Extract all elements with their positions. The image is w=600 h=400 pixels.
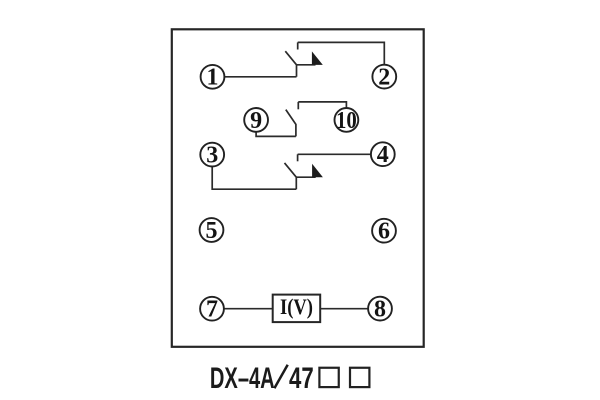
svg-text:I(V): I(V) xyxy=(280,294,313,319)
wire coil to terminal8 xyxy=(321,308,369,310)
wire terminal3 to contact K3 xyxy=(212,166,296,189)
svg-text:8: 8 xyxy=(374,297,386,323)
wire terminal7 to coil xyxy=(224,308,273,310)
terminal 2 xyxy=(372,65,396,91)
svg-text:DX–4A: DX–4A xyxy=(210,362,275,395)
svg-text:3: 3 xyxy=(206,143,218,169)
relay case outline xyxy=(172,29,424,347)
model label slash xyxy=(274,365,287,389)
svg-text:6: 6 xyxy=(378,219,390,245)
terminal 5 xyxy=(200,218,224,244)
contact K3 arrowhead xyxy=(312,164,323,178)
terminal 9 xyxy=(244,108,268,134)
coil box I(V) xyxy=(273,295,321,323)
wire contact K3 to terminal4 xyxy=(298,153,372,155)
wire terminal9 to contact K2 xyxy=(256,131,296,136)
wire contact K1 to terminal2 xyxy=(298,42,385,65)
contact K2 fixed contact xyxy=(297,102,299,109)
svg-text:5: 5 xyxy=(206,218,218,244)
wire terminal1 to contact K1 xyxy=(224,76,296,78)
svg-text:1: 1 xyxy=(207,65,219,91)
terminal 6 xyxy=(372,219,396,245)
terminal 3 xyxy=(200,143,224,169)
terminal 7 xyxy=(200,297,224,323)
terminal 8 xyxy=(368,297,392,323)
contact K1 movable blade xyxy=(285,51,296,77)
model option square 2 xyxy=(350,368,369,387)
terminal 10 xyxy=(335,108,359,134)
model option square 1 xyxy=(319,368,338,387)
contact K3 fixed contact xyxy=(297,154,299,161)
svg-text:9: 9 xyxy=(250,108,262,134)
svg-text:7: 7 xyxy=(206,297,218,323)
svg-text:2: 2 xyxy=(378,65,390,91)
terminal 1 xyxy=(201,65,225,91)
contact K3 movable blade xyxy=(285,163,297,189)
contact K1 fixed contact xyxy=(297,42,299,49)
contact K1 arrowhead xyxy=(312,51,323,65)
terminal 4 xyxy=(371,142,395,168)
wire contact K2 to terminal10 xyxy=(298,102,346,109)
contact K1 arrow shaft xyxy=(297,64,316,66)
contact K2 movable blade xyxy=(286,110,296,137)
contact K3 arrow shaft xyxy=(296,176,315,178)
svg-text:4: 4 xyxy=(377,142,389,168)
svg-text:10: 10 xyxy=(336,108,357,134)
svg-text:47: 47 xyxy=(289,362,314,395)
